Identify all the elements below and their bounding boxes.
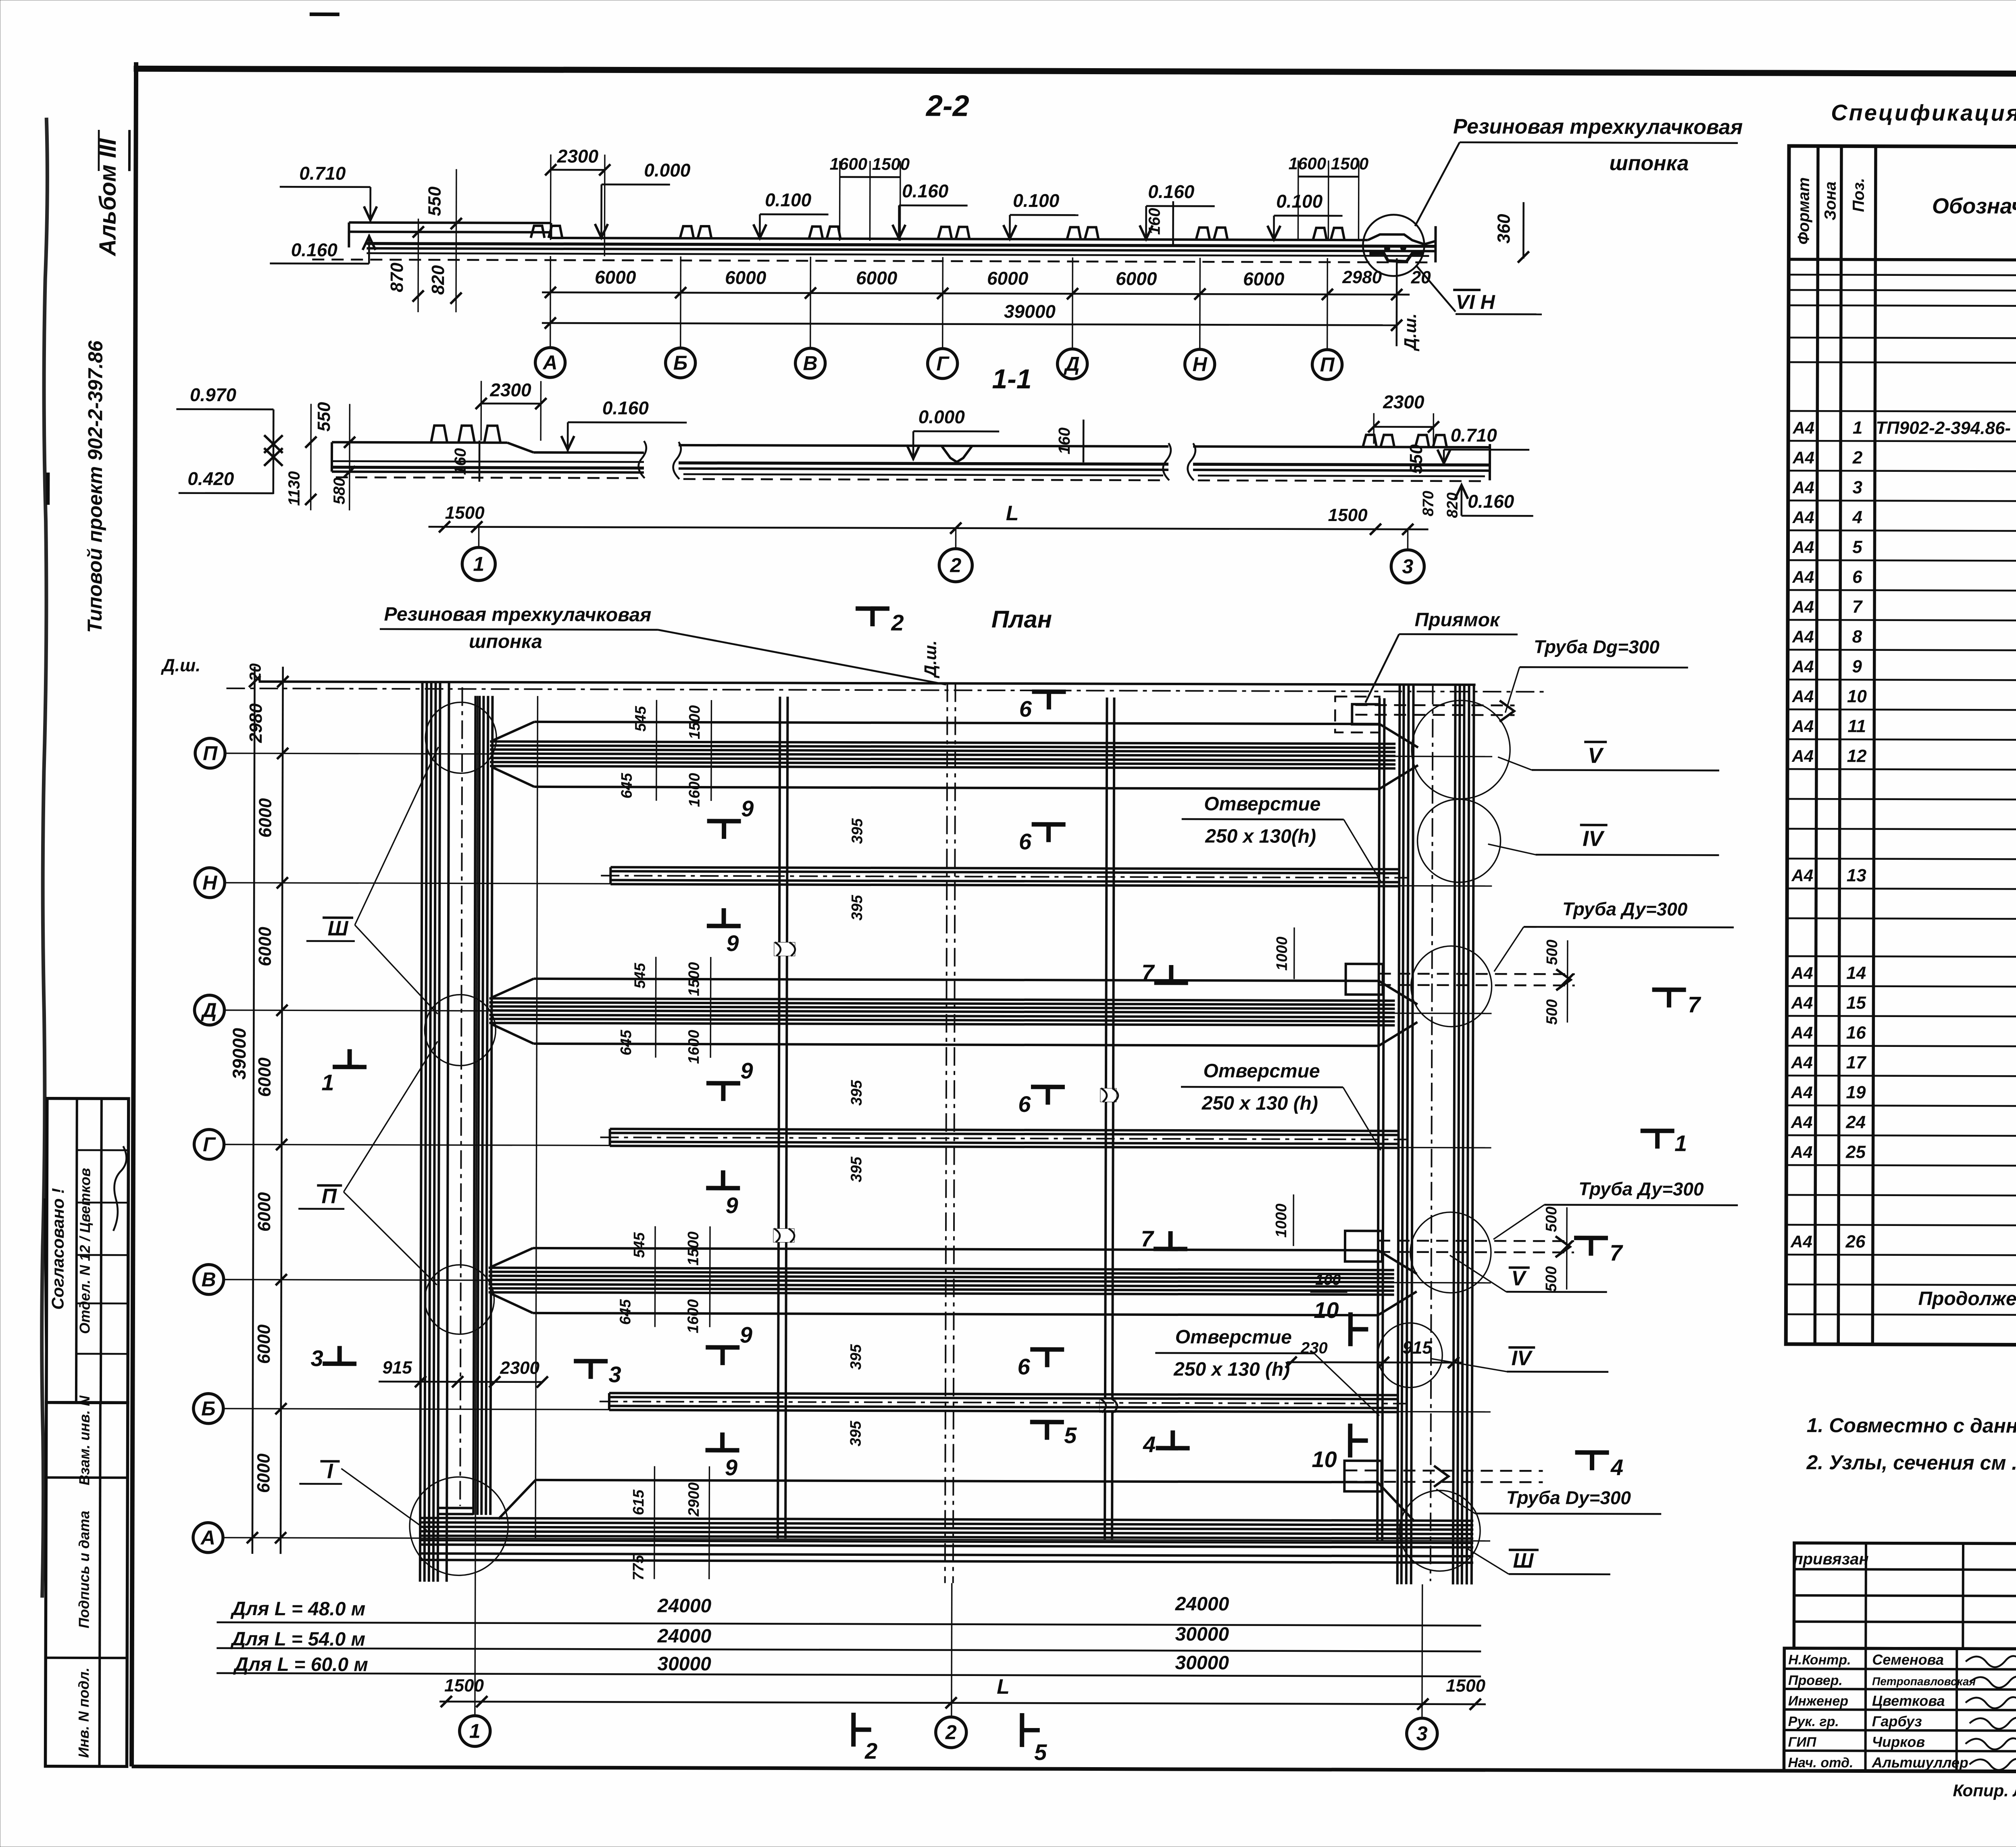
svg-text:Н.Контр.: Н.Контр. bbox=[1788, 1652, 1851, 1668]
svg-text:645: 645 bbox=[619, 773, 635, 798]
svg-text:Г: Г bbox=[203, 1133, 216, 1156]
section 1-1 bottom dim line with L bbox=[429, 500, 1429, 535]
svg-text:19: 19 bbox=[1846, 1082, 1866, 1102]
axis circles A..P (section 2-2) bbox=[535, 348, 1342, 379]
svg-text:915: 915 bbox=[1402, 1338, 1432, 1358]
svg-text:4: 4 bbox=[1852, 507, 1862, 527]
svg-text:Д: Д bbox=[200, 999, 217, 1021]
svg-text:500: 500 bbox=[1543, 999, 1560, 1025]
svg-text:А4: А4 bbox=[1792, 657, 1814, 676]
svg-text:А4: А4 bbox=[1792, 538, 1814, 557]
section 2-2 level marks 0.000 / 0.100 / 0.160 bbox=[595, 159, 690, 240]
svg-text:2: 2 bbox=[950, 554, 961, 577]
svg-text:6: 6 bbox=[1019, 829, 1032, 854]
svg-text:1500: 1500 bbox=[444, 1676, 484, 1695]
svg-text:Ш: Ш bbox=[1513, 1549, 1534, 1572]
svg-text:Спецификация элементов на с: Спецификация элементов на секцию „Н“ bbox=[1831, 100, 2016, 127]
svg-text:6: 6 bbox=[1852, 567, 1862, 587]
svg-text:1600: 1600 bbox=[685, 1030, 702, 1064]
svg-text:820: 820 bbox=[1444, 492, 1461, 518]
rubber key label (plan) bbox=[380, 604, 947, 685]
detail label III (right bottom) bbox=[1465, 1547, 1610, 1574]
detail label IV (right upper) bbox=[1488, 825, 1719, 855]
pipe 4 label bbox=[1436, 1487, 1661, 1514]
svg-text:А4: А4 bbox=[1792, 418, 1814, 437]
opening label 2 bbox=[1181, 1060, 1381, 1150]
svg-text:1600: 1600 bbox=[685, 1299, 702, 1334]
svg-text:Отверстие: Отверстие bbox=[1203, 1060, 1320, 1082]
svg-text:Приямок: Приямок bbox=[1415, 609, 1501, 631]
svg-text:2. Узлы, сечения см . ТП9: 2. Узлы, сечения см . ТП902-2-394.86- КЖ… bbox=[1806, 1451, 2016, 1475]
svg-text:L: L bbox=[1006, 502, 1019, 525]
section 1-1 left dims 0.970/0.420 bbox=[176, 384, 356, 511]
bottom axis circles 1,2,3 bbox=[460, 1716, 1437, 1749]
section 1-1 right dims 0.710/0.160 bbox=[1406, 425, 1534, 519]
svg-text:шпонка: шпонка bbox=[1609, 152, 1689, 175]
svg-text:160: 160 bbox=[1145, 208, 1163, 235]
svg-text:395: 395 bbox=[848, 1344, 864, 1370]
svg-text:1500: 1500 bbox=[1328, 505, 1368, 525]
svg-text:395: 395 bbox=[848, 1080, 865, 1105]
svg-text:1500: 1500 bbox=[685, 1232, 702, 1266]
svg-text:Д: Д bbox=[1064, 352, 1080, 375]
pipe 2 with pit bbox=[1273, 928, 1575, 1025]
svg-text:550: 550 bbox=[1406, 444, 1426, 474]
rubber key label (section 2-2) bbox=[1415, 115, 1743, 227]
svg-text:10: 10 bbox=[1847, 686, 1867, 706]
svg-text:30000: 30000 bbox=[1175, 1652, 1229, 1674]
svg-text:2300: 2300 bbox=[489, 379, 531, 400]
svg-text:6000: 6000 bbox=[1116, 268, 1157, 289]
svg-text:Д.ш.: Д.ш. bbox=[160, 655, 200, 675]
plan right wall with outlet channel bbox=[1397, 684, 1474, 1584]
svg-text:Петропавловская: Петропавловская bbox=[1872, 1675, 1976, 1688]
detail label V (right upper) bbox=[1498, 742, 1719, 770]
svg-text:Чирков: Чирков bbox=[1872, 1734, 1925, 1750]
section 1-1 slab segment left bbox=[332, 425, 646, 478]
pipe 1 (top right) with pit bbox=[1335, 696, 1514, 733]
svg-text:1: 1 bbox=[473, 552, 484, 575]
svg-text:А4: А4 bbox=[1792, 597, 1814, 616]
svg-text:А: А bbox=[200, 1526, 215, 1549]
top-left registration dash bbox=[310, 13, 339, 16]
svg-text:5: 5 bbox=[1852, 537, 1862, 557]
section 1-1 slab segment right bbox=[1188, 434, 1490, 481]
svg-text:1000: 1000 bbox=[1274, 936, 1291, 971]
svg-text:Г: Г bbox=[936, 352, 950, 375]
svg-text:Подпись и дата: Подпись и дата bbox=[75, 1511, 92, 1628]
section 1-1 level 0.160 (left) bbox=[561, 397, 687, 452]
svg-text:1500: 1500 bbox=[445, 503, 485, 523]
svg-text:5: 5 bbox=[1034, 1739, 1047, 1765]
svg-text:V: V bbox=[1588, 744, 1604, 768]
svg-text:шпонка: шпонка bbox=[469, 631, 542, 652]
svg-text:Труба Dy=300: Труба Dy=300 bbox=[1506, 1487, 1631, 1508]
plan axis circles П..А bbox=[193, 738, 225, 1553]
svg-text:Продолжение см . л . КЖ-1: Продолжение см . л . КЖ-18 bbox=[1918, 1288, 2016, 1310]
table of lengths (Для L=...) bbox=[217, 1591, 1481, 1678]
svg-text:0.100: 0.100 bbox=[765, 189, 812, 210]
svg-text:2980: 2980 bbox=[246, 703, 266, 744]
svg-text:24000: 24000 bbox=[657, 1595, 712, 1617]
svg-text:7: 7 bbox=[1141, 1226, 1154, 1251]
svg-text:Взам. инв. N: Взам. инв. N bbox=[76, 1395, 93, 1486]
svg-text:2300: 2300 bbox=[557, 146, 599, 167]
detail label III (left) bbox=[306, 746, 438, 1014]
baffle Г bbox=[600, 1129, 1407, 1148]
pipe 3 label bbox=[1493, 1178, 1738, 1240]
svg-text:7: 7 bbox=[1610, 1240, 1623, 1265]
svg-text:3: 3 bbox=[608, 1361, 621, 1387]
svg-text:395: 395 bbox=[848, 1156, 865, 1182]
svg-text:9: 9 bbox=[1852, 657, 1862, 676]
svg-text:IV: IV bbox=[1583, 827, 1605, 851]
svg-text:550: 550 bbox=[425, 186, 445, 216]
svg-text:2900: 2900 bbox=[685, 1482, 702, 1517]
notes bbox=[1806, 1414, 2016, 1476]
svg-text:План: План bbox=[991, 606, 1052, 633]
svg-text:870: 870 bbox=[387, 263, 407, 292]
svg-text:13: 13 bbox=[1847, 865, 1866, 885]
svg-text:9: 9 bbox=[741, 796, 754, 821]
table rows КП1..КП12 bbox=[1792, 417, 2016, 440]
svg-text:Н: Н bbox=[1193, 353, 1208, 375]
axis extension lines to bottom circles bbox=[475, 696, 1425, 1718]
svg-text:6000: 6000 bbox=[1243, 268, 1285, 289]
svg-text:545: 545 bbox=[632, 706, 649, 732]
svg-text:7: 7 bbox=[1688, 992, 1702, 1017]
pit label Priyamok bbox=[1365, 609, 1518, 703]
svg-text:6000: 6000 bbox=[254, 1453, 273, 1493]
section 2-2 top dim 2300 bbox=[545, 146, 610, 256]
svg-text:1. Совместно с данным см .: 1. Совместно с данным см . л.л. КЖ-18;20… bbox=[1807, 1414, 2016, 1438]
svg-text:Гарбуз: Гарбуз bbox=[1872, 1713, 1922, 1730]
svg-text:0.000: 0.000 bbox=[918, 406, 965, 427]
plan right wall inner face bbox=[1377, 698, 1379, 1541]
svg-text:Б: Б bbox=[673, 352, 688, 374]
svg-text:П: П bbox=[1320, 353, 1335, 376]
svg-text:9: 9 bbox=[740, 1058, 753, 1083]
svg-text:Семенова: Семенова bbox=[1872, 1651, 1944, 1668]
svg-text:500: 500 bbox=[1543, 1207, 1560, 1232]
plan grid axis lines bbox=[223, 753, 1492, 1541]
svg-text:А4: А4 bbox=[1791, 993, 1813, 1012]
svg-text:6: 6 bbox=[1017, 1354, 1030, 1379]
level 0.000 (middle) bbox=[907, 406, 999, 461]
svg-text:545: 545 bbox=[632, 963, 649, 988]
left margin stamp box (Soglasovano) bbox=[46, 1099, 129, 1403]
bottom section markers 2 and 5 bbox=[851, 1713, 856, 1747]
svg-text:П: П bbox=[203, 742, 218, 765]
svg-text:0.160: 0.160 bbox=[602, 397, 649, 418]
svg-text:1500: 1500 bbox=[1446, 1676, 1486, 1696]
detail label V (right lower) bbox=[1450, 1255, 1607, 1292]
svg-text:775: 775 bbox=[630, 1555, 647, 1580]
rubber key detail circle bbox=[1363, 215, 1424, 276]
svg-text:А4: А4 bbox=[1792, 687, 1814, 706]
svg-text:А4: А4 bbox=[1792, 478, 1814, 497]
section 2-2 dim 160 rotated bbox=[1145, 201, 1173, 246]
bottom dim line L bbox=[439, 1673, 1486, 1710]
svg-text:230: 230 bbox=[1300, 1339, 1328, 1357]
svg-text:0.160: 0.160 bbox=[291, 239, 338, 260]
title block: signature rows bbox=[1784, 1648, 2016, 1772]
svg-text:А4: А4 bbox=[1791, 1053, 1813, 1072]
svg-text:915: 915 bbox=[382, 1358, 412, 1378]
svg-text:Согласовано !: Согласовано ! bbox=[48, 1188, 67, 1310]
svg-text:А4: А4 bbox=[1791, 1142, 1813, 1161]
svg-text:А4: А4 bbox=[1792, 448, 1814, 467]
svg-text:6000: 6000 bbox=[725, 267, 766, 288]
section markers 10 bbox=[1348, 1312, 1353, 1346]
wall Д bbox=[489, 957, 1418, 1060]
svg-text:645: 645 bbox=[618, 1030, 635, 1055]
node mark VI H bbox=[1417, 267, 1542, 315]
svg-text:ГИП: ГИП bbox=[1788, 1734, 1817, 1750]
dim 160 rotated (middle) bbox=[1056, 419, 1083, 462]
detail label II (left) bbox=[298, 1041, 438, 1285]
svg-text:L: L bbox=[997, 1675, 1010, 1699]
svg-text:6000: 6000 bbox=[254, 1324, 274, 1364]
svg-text:1130: 1130 bbox=[285, 471, 303, 506]
section markers 3 bbox=[323, 1361, 356, 1366]
svg-text:Д.ш.: Д.ш. bbox=[921, 640, 940, 678]
svg-text:Труба Dg=300: Труба Dg=300 bbox=[1534, 636, 1660, 657]
svg-text:395: 395 bbox=[849, 894, 866, 920]
svg-text:550: 550 bbox=[314, 402, 334, 432]
plan top expansion joint line D.sh. bbox=[160, 638, 1545, 692]
section 2-2 left elevation dims 0.710/0.160 bbox=[270, 163, 462, 312]
svg-text:6000: 6000 bbox=[256, 798, 275, 838]
scanned page left edge bbox=[41, 118, 50, 1598]
svg-text:6000: 6000 bbox=[254, 1192, 274, 1232]
svg-text:3: 3 bbox=[311, 1345, 323, 1371]
svg-text:IV: IV bbox=[1512, 1347, 1533, 1370]
plan vertical dimension chain bbox=[227, 663, 289, 1554]
svg-text:А4: А4 bbox=[1792, 508, 1814, 527]
section 2-2 top dim 1600,1500 left bbox=[829, 154, 910, 241]
svg-text:250 x 130 (h): 250 x 130 (h) bbox=[1173, 1359, 1290, 1380]
svg-text:15: 15 bbox=[1846, 993, 1866, 1013]
dim 360 (right end, section 2-2) bbox=[1494, 202, 1529, 263]
svg-text:870: 870 bbox=[1420, 491, 1437, 517]
svg-text:6000: 6000 bbox=[595, 267, 636, 288]
specification table grid bbox=[1786, 146, 2016, 1346]
svg-text:395: 395 bbox=[848, 1420, 864, 1446]
svg-text:1-1: 1-1 bbox=[992, 364, 1031, 394]
svg-text:1: 1 bbox=[469, 1720, 481, 1742]
baffle Б bbox=[600, 1393, 1406, 1412]
bottom rotated dims 615/2900/775 bbox=[630, 1482, 703, 1580]
pipe 3 with pit bbox=[1273, 1195, 1574, 1293]
svg-text:545: 545 bbox=[631, 1232, 648, 1258]
svg-text:2-2: 2-2 bbox=[925, 89, 969, 122]
svg-text:5: 5 bbox=[1064, 1422, 1077, 1448]
dim 160 rotated (seg1) bbox=[452, 440, 479, 482]
pipe 4 (bottom right) with pit bbox=[1344, 1461, 1543, 1492]
svg-text:В: В bbox=[202, 1268, 216, 1291]
table row КР1 bbox=[1791, 864, 2016, 888]
svg-text:Отверстие: Отверстие bbox=[1204, 793, 1320, 815]
svg-text:9: 9 bbox=[725, 1455, 737, 1480]
baffle Н bbox=[601, 867, 1407, 886]
section markers 4 bbox=[1156, 1446, 1190, 1450]
plan longitudinal partition (right) bbox=[1099, 698, 1119, 1539]
svg-text:Провер.: Провер. bbox=[1788, 1673, 1843, 1688]
svg-text:7: 7 bbox=[1141, 960, 1155, 985]
svg-text:2980: 2980 bbox=[1342, 267, 1382, 287]
svg-text:Инженер: Инженер bbox=[1788, 1693, 1848, 1709]
svg-text:А4: А4 bbox=[1792, 627, 1814, 646]
section 2-2 overall dim 39000 bbox=[542, 300, 1402, 331]
svg-text:0.000: 0.000 bbox=[644, 160, 691, 181]
svg-text:9: 9 bbox=[726, 930, 739, 956]
detail circles on left wall bbox=[410, 702, 510, 1576]
svg-text:1600: 1600 bbox=[686, 773, 703, 807]
svg-text:645: 645 bbox=[617, 1299, 634, 1325]
plan bottom wall (axis А) bbox=[420, 1466, 1474, 1581]
svg-text:24000: 24000 bbox=[1175, 1593, 1229, 1615]
svg-text:0.970: 0.970 bbox=[190, 384, 237, 405]
svg-text:11: 11 bbox=[1847, 716, 1866, 736]
svg-text:Резиновая трехкулачковая: Резиновая трехкулачковая bbox=[1453, 115, 1743, 139]
section markers 7 (inside plan) bbox=[1154, 980, 1188, 985]
svg-text:Резиновая трехкулачковая: Резиновая трехкулачковая bbox=[384, 604, 651, 626]
svg-text:10: 10 bbox=[1312, 1447, 1337, 1472]
svg-text:1000: 1000 bbox=[1273, 1203, 1290, 1238]
svg-text:6000: 6000 bbox=[856, 267, 898, 288]
svg-text:А4: А4 bbox=[1791, 1113, 1813, 1132]
baffle dim labels 395 bbox=[849, 818, 866, 920]
svg-text:4: 4 bbox=[1143, 1432, 1156, 1457]
dims 915 / 2300 at Б row bbox=[379, 1358, 548, 1388]
svg-text:30000: 30000 bbox=[657, 1653, 711, 1675]
svg-text:0.160: 0.160 bbox=[902, 180, 949, 201]
svg-text:0.710: 0.710 bbox=[299, 163, 346, 183]
svg-text:А: А bbox=[542, 351, 558, 374]
svg-text:0.160: 0.160 bbox=[1148, 181, 1195, 202]
detail label I (left) bbox=[299, 1459, 427, 1530]
svg-text:Б: Б bbox=[201, 1397, 216, 1420]
section 1-1 dim 2300 (left) bbox=[475, 379, 546, 440]
svg-text:Отдел. N 12 / Цветков: Отдел. N 12 / Цветков bbox=[76, 1168, 93, 1334]
section markers 6 bbox=[1032, 690, 1066, 694]
svg-text:30000: 30000 bbox=[1175, 1624, 1229, 1645]
svg-text:Типовой проект 902-2-397.86: Типовой проект 902-2-397.86 bbox=[83, 340, 107, 633]
svg-text:3: 3 bbox=[1402, 555, 1413, 578]
svg-text:3: 3 bbox=[1416, 1722, 1428, 1745]
svg-text:39000: 39000 bbox=[1004, 301, 1056, 322]
svg-text:А4: А4 bbox=[1791, 963, 1813, 982]
svg-text:20: 20 bbox=[1411, 268, 1431, 288]
svg-text:3: 3 bbox=[1853, 477, 1863, 497]
svg-text:Ш: Ш bbox=[327, 917, 348, 940]
svg-text:1500: 1500 bbox=[686, 962, 703, 996]
svg-text:24000: 24000 bbox=[657, 1626, 712, 1647]
svg-text:Копир. Лавружина: Копир. Лавружина bbox=[1953, 1781, 2016, 1800]
svg-text:0.100: 0.100 bbox=[1276, 191, 1323, 212]
title block: small binding table bbox=[1793, 1543, 2016, 1649]
svg-text:А4: А4 bbox=[1791, 1023, 1813, 1042]
svg-text:2300: 2300 bbox=[1383, 391, 1425, 412]
svg-text:2: 2 bbox=[945, 1721, 957, 1744]
wall П bbox=[490, 700, 1418, 803]
svg-text:4: 4 bbox=[1610, 1455, 1623, 1480]
svg-text:395: 395 bbox=[849, 818, 866, 844]
table rows С1..С13 bbox=[1791, 962, 2016, 985]
pipe 2 label bbox=[1494, 898, 1734, 972]
svg-text:Рук. гр.: Рук. гр. bbox=[1788, 1714, 1839, 1729]
svg-text:Для L = 48.0 м: Для L = 48.0 м bbox=[230, 1598, 366, 1620]
svg-text:Нач. отд.: Нач. отд. bbox=[1788, 1755, 1854, 1770]
svg-text:2: 2 bbox=[864, 1738, 877, 1764]
svg-text:А4: А4 bbox=[1791, 746, 1814, 765]
detail label IV (right lower) bbox=[1430, 1347, 1608, 1372]
svg-text:39000: 39000 bbox=[229, 1028, 250, 1080]
svg-text:Труба Ду=300: Труба Ду=300 bbox=[1562, 898, 1688, 920]
svg-text:10: 10 bbox=[1314, 1297, 1339, 1323]
svg-text:1: 1 bbox=[321, 1069, 334, 1095]
svg-text:0.160: 0.160 bbox=[1468, 491, 1514, 512]
svg-text:25: 25 bbox=[1845, 1142, 1866, 1162]
svg-text:6000: 6000 bbox=[987, 268, 1029, 289]
svg-text:Инв. N подл.: Инв. N подл. bbox=[75, 1668, 92, 1758]
plan expansion joint (vertical, dashed) bbox=[945, 684, 956, 1583]
svg-text:Зона: Зона bbox=[1822, 181, 1839, 221]
opening label 3 bbox=[1155, 1326, 1380, 1415]
svg-text:Формат: Формат bbox=[1795, 177, 1812, 245]
svg-text:24: 24 bbox=[1845, 1112, 1866, 1132]
svg-text:1: 1 bbox=[1853, 418, 1863, 438]
detail circles on right wall bbox=[1377, 700, 1510, 1571]
svg-text:14: 14 bbox=[1846, 963, 1866, 983]
section 2-2 top dim 1600,1500 right bbox=[1288, 154, 1368, 241]
svg-text:615: 615 bbox=[630, 1489, 647, 1515]
svg-text:А4: А4 bbox=[1792, 567, 1814, 586]
svg-text:0.100: 0.100 bbox=[1013, 190, 1060, 211]
axis circles 1,2,3 (section 1-1) bbox=[462, 527, 1424, 583]
svg-text:9: 9 bbox=[740, 1322, 752, 1347]
svg-text:Цветкова: Цветкова bbox=[1872, 1693, 1945, 1709]
svg-text:580: 580 bbox=[331, 477, 348, 504]
svg-text:VI Н: VI Н bbox=[1456, 291, 1495, 313]
svg-text:I: I bbox=[327, 1460, 333, 1483]
section marker 5 bbox=[1030, 1420, 1064, 1424]
svg-text:6000: 6000 bbox=[255, 1057, 275, 1097]
svg-text:1: 1 bbox=[1674, 1130, 1687, 1156]
svg-text:Д.ш.: Д.ш. bbox=[1401, 313, 1420, 351]
svg-text:360: 360 bbox=[1494, 214, 1514, 244]
svg-text:Для L = 60.0 м: Для L = 60.0 м bbox=[233, 1654, 368, 1676]
pipe 1 label bbox=[1505, 636, 1688, 713]
bottom margin annotations bbox=[1953, 1774, 2016, 1801]
svg-text:2: 2 bbox=[891, 610, 904, 635]
svg-text:6: 6 bbox=[1018, 1091, 1031, 1117]
svg-text:Н: Н bbox=[202, 871, 217, 894]
svg-text:Альтшуллер: Альтшуллер bbox=[1872, 1754, 1968, 1771]
svg-text:250 x 130(h): 250 x 130(h) bbox=[1205, 826, 1316, 847]
svg-text:1500: 1500 bbox=[686, 705, 703, 740]
svg-text:Для L = 54.0 м: Для L = 54.0 м bbox=[230, 1628, 366, 1650]
left margin: Album III bbox=[94, 130, 129, 257]
section marker 1 (inside plan) bbox=[333, 1065, 367, 1069]
svg-text:500: 500 bbox=[1543, 1266, 1560, 1292]
svg-text:9: 9 bbox=[726, 1192, 738, 1218]
svg-text:160: 160 bbox=[1056, 427, 1073, 454]
svg-text:П: П bbox=[321, 1185, 337, 1208]
left margin stamp box (Vzam/Podpis/Inv) bbox=[46, 1395, 128, 1766]
plan left wall with inlet channel bbox=[420, 682, 493, 1582]
